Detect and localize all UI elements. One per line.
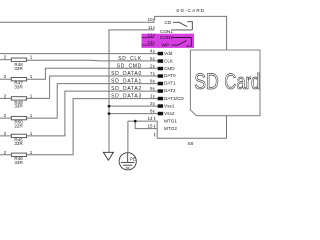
svg-text:10: 10 [147, 17, 153, 22]
svg-text:SD_DATA1: SD_DATA1 [111, 78, 142, 84]
svg-text:S8: S8 [188, 141, 194, 146]
svg-text:7: 7 [150, 71, 153, 76]
svg-text:CMD: CMD [164, 66, 175, 71]
svg-text:SD-CARD: SD-CARD [176, 8, 205, 13]
svg-text:SD_DATA3: SD_DATA3 [111, 93, 142, 99]
svg-text:9: 9 [150, 86, 153, 91]
svg-text:SD: SD [194, 69, 219, 94]
svg-text:2: 2 [4, 131, 7, 136]
svg-text:DAT2: DAT2 [164, 88, 176, 93]
svg-text:33R: 33R [14, 84, 23, 89]
svg-text:11: 11 [148, 25, 153, 30]
svg-text:1: 1 [30, 55, 33, 60]
svg-text:2: 2 [4, 74, 7, 79]
svg-text:33R: 33R [14, 104, 23, 109]
svg-text:DAT1: DAT1 [164, 81, 176, 86]
svg-text:2: 2 [150, 63, 153, 68]
svg-text:1: 1 [150, 93, 153, 98]
svg-text:DAT3/CD: DAT3/CD [164, 96, 184, 101]
svg-text:DAT0: DAT0 [164, 73, 176, 78]
svg-text:15: 15 [147, 124, 153, 129]
svg-text:CLK: CLK [164, 58, 174, 63]
svg-text:14: 14 [147, 116, 153, 121]
svg-text:1: 1 [30, 131, 33, 136]
svg-text:8: 8 [150, 78, 153, 83]
svg-text:2: 2 [4, 113, 7, 118]
svg-text:33R: 33R [14, 141, 23, 146]
svg-text:CON1: CON1 [160, 29, 173, 34]
svg-text:Vss1: Vss1 [164, 103, 175, 108]
svg-text:1: 1 [30, 150, 33, 155]
svg-text:22R: 22R [14, 123, 23, 128]
svg-text:MTG1: MTG1 [164, 118, 177, 123]
svg-text:5: 5 [150, 56, 153, 61]
svg-text:6: 6 [150, 108, 153, 113]
svg-text:3: 3 [150, 101, 153, 106]
svg-text:Vdd: Vdd [164, 51, 173, 56]
svg-text:2: 2 [4, 150, 7, 155]
svg-text:4: 4 [150, 48, 153, 53]
svg-text:2: 2 [4, 93, 7, 98]
svg-text:CD: CD [165, 20, 172, 25]
svg-text:SD_DATA2: SD_DATA2 [111, 86, 142, 92]
svg-text:33R: 33R [14, 66, 23, 71]
svg-text:1: 1 [30, 74, 33, 79]
svg-text:1: 1 [30, 93, 33, 98]
svg-text:2: 2 [4, 55, 7, 60]
svg-text:MTG2: MTG2 [164, 126, 177, 131]
svg-text:Vss2: Vss2 [164, 111, 175, 116]
svg-text:SD_CMD: SD_CMD [117, 63, 142, 69]
svg-text:SD_DATA0: SD_DATA0 [111, 71, 142, 77]
svg-text:33R: 33R [14, 160, 23, 165]
svg-text:SD_CLK: SD_CLK [118, 56, 142, 62]
svg-text:Card: Card [224, 69, 260, 94]
svg-text:1: 1 [30, 113, 33, 118]
svg-text:PE: PE [130, 157, 136, 162]
